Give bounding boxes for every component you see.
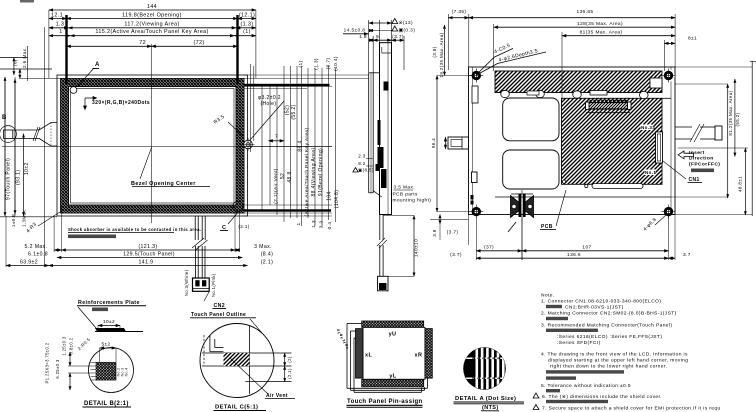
svg-text:xR: xR (340, 333, 344, 338)
svg-text:3.3: 3.3 (319, 221, 325, 229)
svg-text:(2.1): (2.1) (238, 224, 249, 229)
svg-text:3. Recommended Matching Connec: 3. Recommended Matching Connecter(Touch … (541, 323, 672, 329)
svg-text:Shock absorber is available to: Shock absorber is available to be contac… (68, 227, 201, 232)
svg-text::Series 6216(ELCO) :Series FE: :Series 6216(ELCO) :Series FE,FFS(JST) (557, 334, 662, 340)
svg-text:0.8±0.2: 0.8±0.2 (69, 337, 74, 354)
svg-text:(Active Area/Touch Panel Key A: (Active Area/Touch Panel Key Area) (304, 128, 310, 217)
svg-text:(1.3): (1.3) (314, 58, 320, 70)
svg-text:72: 72 (139, 40, 146, 46)
svg-text:136.65: 136.65 (577, 9, 594, 15)
svg-text:48.8: 48.8 (287, 171, 293, 182)
svg-text:8±1: 8±1 (688, 36, 697, 42)
svg-text:(1): (1) (243, 29, 251, 35)
svg-text:5. Tolerance without indicatio: 5. Tolerance without indication:±0.5 (541, 383, 631, 389)
svg-text:5.2 Max.: 5.2 Max. (25, 244, 48, 250)
svg-text:97(Touch Panel): 97(Touch Panel) (6, 158, 12, 200)
svg-text:8.8: 8.8 (443, 139, 448, 146)
svg-text:12.1: 12.1 (51, 13, 63, 19)
svg-text:6.25±0.3: 6.25±0.3 (55, 359, 60, 379)
svg-text:144: 144 (147, 4, 157, 10)
svg-text:No.1: No.1 (645, 170, 656, 175)
svg-text:(NTS): (NTS) (482, 405, 499, 411)
svg-text:6.1±0.8: 6.1±0.8 (28, 252, 48, 258)
svg-text:B: B (2, 115, 7, 121)
svg-text:19.2(35 Max. Area): 19.2(35 Max. Area) (439, 32, 444, 77)
svg-text:9: 9 (376, 34, 379, 40)
svg-text:No.4: No.4 (125, 368, 129, 377)
svg-text:(121.3): (121.3) (138, 244, 157, 250)
svg-text:Touch Panel Pin-assign: Touch Panel Pin-assign (347, 399, 423, 405)
svg-text::Series SFD(FCI): :Series SFD(FCI) (557, 340, 601, 346)
svg-text:3 Max.: 3 Max. (254, 244, 272, 250)
svg-text:Insert: Insert (689, 150, 705, 156)
svg-text:4. The drawing is the front vi: 4. The drawing is the front view of the … (541, 352, 688, 358)
svg-text:81(35 Max. Area): 81(35 Max. Area) (580, 30, 623, 36)
svg-text:(1.3): (1.3) (241, 21, 254, 27)
svg-text:(37): (37) (484, 245, 494, 251)
svg-text:yU: yU (337, 328, 341, 333)
svg-text:1.3Max.: 1.3Max. (22, 208, 27, 227)
svg-text:Direction: Direction (689, 156, 714, 162)
svg-text:115.2(Active Area/Touch Panel: 115.2(Active Area/Touch Panel Key Area) (95, 29, 208, 35)
svg-text:(72): (72) (193, 40, 204, 46)
svg-text:14.5±0.8: 14.5±0.8 (344, 28, 366, 34)
svg-text:8.2: 8.2 (358, 161, 366, 166)
svg-text:63.9±2: 63.9±2 (20, 260, 38, 266)
svg-text:Reinforcements Plate: Reinforcements Plate (78, 300, 140, 306)
svg-text:yU: yU (389, 332, 397, 338)
svg-text:(2.1)(Air Vent): (2.1)(Air Vent) (273, 168, 279, 204)
svg-text:(3.7): (3.7) (450, 252, 462, 258)
svg-text:Touch Panel Outline: Touch Panel Outline (191, 312, 246, 318)
svg-text:▣(8.5): ▣(8.5) (358, 168, 374, 173)
svg-text:140±10: 140±10 (414, 239, 420, 257)
svg-text:136.6: 136.6 (567, 252, 581, 258)
svg-text:(FPCorFFC): (FPCorFFC) (689, 161, 720, 167)
svg-text:(55.2): (55.2) (735, 112, 740, 126)
svg-text:117.2(Viewing Area): 117.2(Viewing Area) (124, 21, 179, 27)
svg-text:DETAIL A (Dot Size): DETAIL A (Dot Size) (455, 396, 516, 402)
svg-text:(7.35): (7.35) (452, 9, 467, 15)
svg-text:96.4: 96.4 (431, 138, 436, 148)
svg-text:yL: yL (389, 374, 396, 380)
svg-text:3.7: 3.7 (683, 252, 691, 258)
svg-text:yL: yL (342, 339, 346, 344)
svg-text:2.6 Max.: 2.6 Max. (22, 47, 27, 68)
svg-text:▣(0.3): ▣(0.3) (399, 28, 416, 34)
svg-text:(3.8): (3.8) (432, 46, 437, 57)
svg-text:52: 52 (280, 173, 286, 179)
svg-text:DETAIL B(2:1): DETAIL B(2:1) (84, 401, 129, 407)
svg-text:1.3: 1.3 (311, 220, 317, 228)
svg-text:(2.1): (2.1) (261, 260, 274, 266)
svg-text:1: 1 (59, 29, 62, 35)
svg-text:(2): (2) (287, 356, 292, 362)
svg-text:xR: xR (415, 353, 423, 359)
svg-text:3.8: 3.8 (432, 229, 437, 237)
svg-text:(12.1): (12.1) (239, 13, 255, 19)
svg-text:Note.: Note. (541, 293, 555, 299)
svg-text:5±2: 5±2 (101, 342, 110, 348)
svg-text:107: 107 (582, 245, 591, 251)
svg-text:6. The (※) dimensions include: 6. The (※) dimensions include the shield… (542, 394, 662, 400)
svg-text:88.4(Viewing Area): 88.4(Viewing Area) (311, 148, 317, 197)
svg-text:※(13): ※(13) (399, 20, 413, 26)
svg-text:(55.2): (55.2) (291, 104, 297, 119)
svg-text:mounting hight): mounting hight) (393, 198, 432, 204)
svg-text:(1): (1) (298, 60, 304, 67)
svg-text:xL: xL (365, 353, 372, 359)
svg-text:3.5 Max.: 3.5 Max. (394, 185, 415, 191)
svg-text:CN2:BHR-03VS-1(JST): CN2:BHR-03VS-1(JST) (565, 305, 624, 311)
svg-text:10±2: 10±2 (103, 319, 115, 325)
svg-text:141.9: 141.9 (139, 260, 154, 266)
svg-text:(8.4): (8.4) (261, 252, 274, 258)
svg-text:10±2: 10±2 (24, 162, 30, 175)
svg-text:1.3: 1.3 (56, 21, 65, 27)
svg-text:(Hole): (Hole) (261, 101, 277, 107)
svg-text:A: A (95, 62, 100, 68)
svg-text:DETAIL C(5:1): DETAIL C(5:1) (215, 405, 258, 411)
svg-text:119.8(Bezel Opening): 119.8(Bezel Opening) (122, 13, 182, 19)
svg-text:1.8: 1.8 (359, 34, 367, 40)
svg-text:48.8±1: 48.8±1 (737, 176, 742, 192)
svg-text:104: 104 (327, 191, 333, 200)
svg-text:0.4: 0.4 (327, 222, 333, 230)
svg-text:(104.8): (104.8) (334, 190, 340, 209)
svg-text:P1.25X3=3.75±0.2: P1.25X3=3.75±0.2 (45, 342, 50, 383)
svg-text:(9.7): (9.7) (326, 58, 332, 70)
svg-text:1: 1 (296, 222, 302, 225)
svg-text:displayed starting at the uppe: displayed starting at the upper left han… (548, 358, 688, 364)
svg-text:7: 7 (275, 134, 278, 139)
svg-text:(3.7): (3.7) (447, 230, 459, 236)
svg-text:1. Connector CN1:08-6210-033-: 1. Connector CN1:08-6210-033-340-800(ELC… (541, 299, 661, 305)
svg-text:right then down to the lower r: right then down to the lower right hand … (550, 364, 667, 370)
svg-text:xR: xR (345, 343, 349, 348)
svg-text:(2.1): (2.1) (287, 368, 292, 379)
svg-text:7. Secure space to attach a sh: 7. Secure space to attach a shield cover… (542, 406, 721, 412)
svg-text:2.3: 2.3 (358, 154, 366, 159)
svg-text:1.25±0.3: 1.25±0.3 (62, 336, 67, 356)
svg-text:320×(R,G,B)×240Dots: 320×(R,G,B)×240Dots (92, 100, 150, 106)
svg-text:No.33: No.33 (641, 125, 655, 130)
svg-text:(3.7): (3.7) (392, 34, 404, 40)
svg-text:81.2(35 Max. Area): 81.2(35 Max. Area) (728, 90, 733, 135)
svg-text:(6): (6) (13, 59, 18, 66)
svg-text:86.4: 86.4 (298, 140, 304, 151)
svg-text:(PCB parts: (PCB parts (391, 192, 418, 198)
svg-text:1±0.8: 1±0.8 (11, 214, 16, 227)
svg-text:2. Matching Connector CN2:SM02: 2. Matching Connector CN2:SM02-(8.0)B-BH… (541, 311, 677, 317)
svg-text:128(35 Max. Area): 128(35 Max. Area) (577, 21, 623, 27)
svg-text:(10.4): (10.4) (333, 56, 339, 71)
svg-text:129.5(Touch Panel): 129.5(Touch Panel) (123, 252, 175, 258)
svg-text:No.1(Pink): No.1(Pink) (211, 273, 216, 297)
svg-text:No.3(White): No.3(White) (184, 269, 189, 296)
svg-text:91(Bezel Opening): 91(Bezel Opening) (318, 148, 324, 196)
svg-text:(52): (52) (285, 105, 291, 115)
svg-text:(93.1): (93.1) (16, 170, 22, 185)
